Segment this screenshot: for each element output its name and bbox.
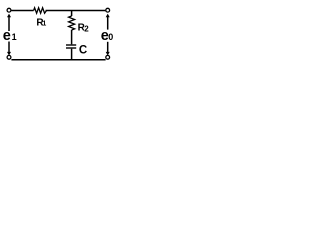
voltage arrow e1 lower segment with down arrowhead (8, 42, 10, 53)
node output top terminal (106, 8, 110, 12)
node input top terminal (7, 8, 11, 12)
capacitor C top plate (66, 44, 76, 46)
svg-text:1: 1 (12, 32, 17, 42)
capacitor C bottom plate (66, 47, 76, 49)
resistor R1 (34, 8, 47, 13)
svg-text:1: 1 (42, 21, 46, 28)
wire shunt branch upper lead (71, 11, 73, 17)
svg-text:2: 2 (84, 24, 89, 33)
resistor R2 (69, 16, 75, 30)
svg-text:0: 0 (108, 32, 113, 42)
voltage arrow e1 upper segment with up arrowhead (8, 17, 10, 32)
node output bottom terminal (106, 55, 110, 59)
node input bottom terminal (7, 55, 11, 59)
wire top-left segment (11, 10, 33, 12)
voltage arrow e0 lower segment with down arrowhead (107, 42, 109, 53)
svg-text:C: C (79, 44, 87, 56)
wire capacitor to bottom (71, 49, 73, 60)
wire top-right segment (46, 10, 106, 12)
wire bottom (11, 59, 105, 61)
wire R2 to capacitor (71, 30, 73, 44)
voltage arrow e0 upper segment with up arrowhead (107, 17, 109, 30)
